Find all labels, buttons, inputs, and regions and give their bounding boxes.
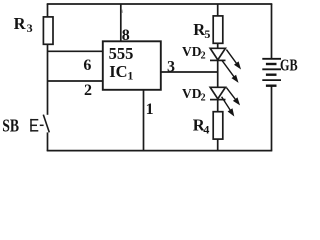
LED2 emission arrow d [222,97,234,115]
svg-text:3: 3 [27,21,33,35]
small artifact tick on pin 8 wire [121,10,124,13]
svg-text:4: 4 [203,123,209,137]
switch SB actuator bracket [30,119,43,132]
svg-text:555: 555 [109,44,134,63]
svg-text:SB: SB [2,115,19,135]
wire bottom rail [47,150,273,152]
wire pin 6 [48,50,104,52]
LED VD2 upper diode triangle [210,48,226,60]
svg-text:3: 3 [167,58,175,75]
LED2 emission arrow c [226,88,238,104]
LED1 emission arrow b [222,60,238,81]
svg-text:GB: GB [280,56,298,75]
wire R5 to LED1 [217,44,219,48]
svg-text:8: 8 [122,27,130,44]
svg-text:VD: VD [182,86,202,101]
svg-text:1: 1 [146,101,154,118]
svg-text:5: 5 [204,27,210,41]
wire top rail [47,3,273,5]
resistor R5 [213,16,223,43]
wire switch bottom lead [47,132,49,151]
wire LED1 to LED2 chain [217,61,219,88]
svg-text:2: 2 [84,82,92,99]
wire R4 bottom lead [217,139,219,151]
LED1 emission arrow a [226,50,239,68]
svg-text:VD: VD [182,44,202,59]
svg-text:2: 2 [201,50,206,61]
svg-text:R: R [14,14,27,33]
wire battery bottom to rail [271,86,273,150]
wire LED2 to R4 [217,100,219,112]
resistor R4 [213,112,223,139]
wire pin 8 [120,4,122,42]
wire pin 1 [143,90,145,151]
resistor R3 [43,17,53,44]
svg-text:1: 1 [127,69,133,83]
wire battery drop from rail [271,4,273,58]
wire R3 bottom to switch [47,44,49,115]
svg-text:6: 6 [83,57,91,74]
LED VD2 lower diode triangle [210,87,226,99]
wire pin 2 [48,80,104,82]
svg-text:IC: IC [109,62,127,81]
wire R5 top stub [217,4,219,16]
battery GB plates [262,59,281,86]
wire pin 3 [161,71,218,73]
svg-text:2: 2 [201,92,206,103]
wire R3 top lead [47,4,49,17]
IC U1 555 timer box [103,41,161,90]
pushbutton switch SB blade [43,115,49,133]
